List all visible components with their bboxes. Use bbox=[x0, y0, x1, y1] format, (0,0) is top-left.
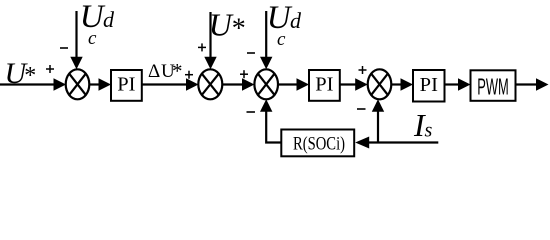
plus sign at S3 left input bbox=[240, 70, 248, 78]
svg-text:PI: PI bbox=[315, 74, 333, 96]
wire S3 to PI2 bbox=[278, 78, 309, 91]
block R(SOCi) bbox=[281, 130, 354, 157]
svg-text:PI: PI bbox=[420, 74, 438, 96]
plus sign at S1 left input bbox=[46, 65, 54, 73]
minus sign at S3 bottom input bbox=[247, 111, 256, 113]
label Udc (top, into S3) bbox=[267, 0, 302, 50]
block PI2 bbox=[309, 70, 340, 101]
summing junction S2 bbox=[198, 69, 222, 99]
svg-text:R(SOCi): R(SOCi) bbox=[293, 135, 345, 155]
block PI3 bbox=[413, 70, 445, 102]
label delta U* bbox=[148, 59, 183, 83]
wire S2 to summing junction S3 bbox=[222, 78, 254, 91]
label Udc (top left) bbox=[80, 0, 115, 49]
label Is bbox=[413, 107, 433, 143]
svg-text:s: s bbox=[425, 120, 433, 142]
minus sign at S1 top input bbox=[60, 47, 68, 49]
svg-text:*: * bbox=[232, 14, 246, 45]
svg-text:c: c bbox=[277, 29, 286, 50]
plus sign at S4 left input bbox=[359, 66, 367, 74]
wire PI2 to summing junction S4 bbox=[340, 78, 368, 91]
label U* (top, into S2) bbox=[209, 7, 246, 45]
wire PI1 to summing junction S2 bbox=[142, 78, 199, 91]
plus sign at S2 top input bbox=[198, 43, 206, 51]
svg-text:PI: PI bbox=[117, 74, 135, 96]
block PWM bbox=[471, 70, 516, 101]
wire feedback R(SOCi) output up into S3 bbox=[260, 99, 281, 142]
summing junction S3 bbox=[254, 69, 278, 99]
svg-text:Δ: Δ bbox=[148, 61, 160, 82]
minus sign at S4 bottom input bbox=[357, 108, 366, 110]
minus sign at S3 top input bbox=[247, 52, 255, 54]
svg-text:PWM: PWM bbox=[477, 74, 509, 100]
svg-text:c: c bbox=[88, 28, 97, 49]
wire PI3 to PWM bbox=[445, 78, 471, 91]
svg-text:d: d bbox=[290, 8, 302, 33]
wire PWM output bbox=[516, 78, 549, 91]
svg-text:d: d bbox=[103, 7, 115, 32]
wire Is into R(SOCi) bbox=[355, 137, 438, 149]
label U* (input reference) bbox=[5, 57, 37, 90]
wire S4 to PI3 bbox=[391, 78, 413, 91]
wire Udc down into S3 bbox=[260, 11, 272, 69]
svg-text:U: U bbox=[209, 7, 234, 43]
svg-text:*: * bbox=[172, 59, 183, 83]
wire Udc down into S1 bbox=[70, 11, 82, 69]
wire input to summing junction S1 bbox=[0, 78, 66, 91]
wire Is branch up into S4 bbox=[372, 99, 384, 142]
plus sign at S2 left input bbox=[185, 71, 193, 79]
summing junction S1 bbox=[66, 69, 90, 99]
block PI1 bbox=[111, 70, 142, 101]
wire U* down into S2 bbox=[204, 12, 216, 69]
wire S1 to PI1 bbox=[89, 78, 111, 91]
summing junction S4 bbox=[368, 69, 392, 99]
